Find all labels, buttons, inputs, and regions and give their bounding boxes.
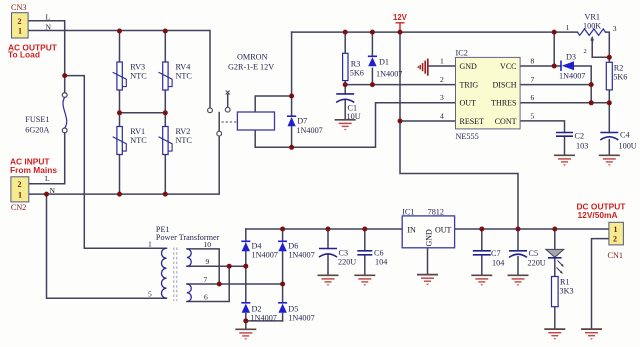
ground below C7	[471, 275, 492, 286]
svg-text:2: 2	[18, 180, 22, 189]
node TRIG R3/C1	[343, 82, 348, 87]
svg-text:R3: R3	[351, 60, 361, 69]
junction DC rail / C6	[362, 227, 367, 232]
wire RV2 stubs	[164, 113, 166, 194]
svg-text:1: 1	[148, 239, 152, 248]
capacitor C2 103	[556, 132, 588, 151]
junction N rail / RV3	[117, 29, 122, 34]
wire TRIG line	[345, 84, 455, 86]
junction D4/D2 midpoint	[243, 264, 248, 269]
thermistor RV1	[113, 127, 148, 155]
ground below R1	[544, 329, 565, 340]
svg-text:1: 1	[440, 56, 444, 65]
wire RV3 bottom to mid rail	[119, 90, 121, 113]
svg-text:104: 104	[492, 259, 504, 268]
wire D2 ground stub	[245, 321, 247, 329]
svg-text:1N4007: 1N4007	[296, 126, 322, 135]
wire relay coil top to D7 top	[255, 96, 291, 112]
wire transformer pin9 to bridge left mid	[187, 265, 246, 267]
svg-text:C2: C2	[575, 132, 585, 141]
svg-text:RESET: RESET	[460, 117, 485, 126]
svg-text:2: 2	[440, 75, 444, 84]
svg-text:3: 3	[613, 24, 617, 33]
svg-text:RV3: RV3	[130, 63, 145, 72]
capacitor C6 104	[357, 249, 387, 267]
svg-text:NE555: NE555	[456, 132, 479, 141]
wire RV1 stubs	[119, 113, 121, 194]
svg-text:CN2: CN2	[11, 203, 26, 212]
thermistor RV4	[159, 62, 193, 90]
svg-text:2: 2	[613, 235, 617, 244]
wire fuse top lead	[64, 76, 66, 93]
svg-text:103: 103	[576, 142, 588, 151]
svg-text:2: 2	[584, 48, 587, 55]
ground below IC1	[417, 275, 438, 286]
svg-text:RV1: RV1	[130, 127, 145, 136]
svg-text:L: L	[46, 12, 51, 21]
svg-text:CN3: CN3	[11, 3, 26, 12]
resistor R2 5K6	[606, 62, 627, 90]
wire CONT pin5 to C2	[520, 121, 564, 133]
junction DC rail / D6	[280, 227, 285, 232]
svg-text:DISCH: DISCH	[492, 80, 516, 89]
svg-text:1N4007: 1N4007	[376, 70, 402, 79]
junction VCC / D3 cathode	[552, 64, 557, 69]
potentiometer VR1 100K	[566, 12, 617, 57]
svg-text:D3: D3	[566, 52, 576, 61]
wire R3 stubs	[344, 32, 346, 85]
svg-text:10: 10	[204, 240, 212, 249]
wire C1 stubs	[344, 85, 346, 120]
diode D7 1N4007	[287, 116, 323, 135]
diode D6 1N4007	[278, 241, 315, 259]
junction N line / RV1	[117, 192, 122, 197]
junction RV3/RV1	[117, 110, 122, 115]
svg-text:OMRON: OMRON	[237, 53, 268, 62]
svg-text:THRES: THRES	[491, 99, 516, 108]
junction DC rail / C7	[479, 227, 484, 232]
wire C4 stubs	[608, 103, 610, 156]
wire D2 stubs	[245, 266, 247, 321]
wire VR1 wiper to R2 top	[592, 39, 609, 63]
capacitor C7 104	[473, 249, 504, 268]
wire RV4 top stub	[164, 31, 166, 62]
svg-text:C5: C5	[529, 249, 539, 258]
svg-text:6: 6	[204, 293, 208, 302]
svg-text:4: 4	[440, 111, 444, 120]
text AC OUTPUT To Load	[8, 43, 58, 60]
wire CN3 pin2 L to fuse top	[28, 21, 65, 76]
transformer secondary winding A	[187, 249, 191, 266]
svg-text:12V/50mA: 12V/50mA	[578, 210, 618, 220]
junction THRES	[589, 100, 594, 105]
analog ground at IC2 pin1	[418, 59, 428, 76]
diode D3 1N4007	[559, 52, 585, 80]
junction N line / RV2	[163, 192, 168, 197]
svg-text:CONT: CONT	[495, 117, 517, 126]
svg-text:9: 9	[206, 257, 210, 266]
svg-text:1N4007: 1N4007	[252, 251, 278, 260]
wire C3 stubs	[327, 229, 329, 275]
wire D3 leads	[554, 66, 591, 85]
svg-text:VR1: VR1	[585, 12, 600, 21]
ground below C5	[508, 275, 529, 286]
wire 12V rail	[292, 31, 578, 33]
svg-text:1: 1	[18, 27, 22, 36]
svg-text:12V: 12V	[393, 13, 408, 22]
connector CN2	[11, 177, 29, 212]
regulator IC1 7812	[402, 207, 454, 247]
svg-text:L: L	[45, 174, 50, 183]
svg-text:D6: D6	[288, 242, 298, 251]
wire D6 stubs	[282, 229, 284, 284]
junction DC rail / LED	[552, 227, 557, 232]
junction 12V rail / VCC drop	[552, 30, 557, 35]
wire RESET pin4	[400, 120, 456, 122]
wire GND pin1	[429, 65, 456, 67]
wire D5 stubs	[282, 284, 284, 321]
wire 12V riser to RESET and down to DC rail	[400, 32, 518, 229]
junction relay coil bottom / D7 / OUT	[289, 145, 294, 150]
ground below C4	[599, 155, 620, 166]
svg-text:C4: C4	[620, 131, 630, 140]
junction sec 10+7 / bridge AC2	[217, 282, 222, 287]
resistor R1 3K3	[552, 277, 574, 307]
transformer primary winding	[162, 248, 167, 298]
svg-text:RV2: RV2	[176, 127, 191, 136]
svg-text:104: 104	[375, 258, 387, 267]
svg-text:1N4007: 1N4007	[251, 314, 277, 323]
wire transformer pin7 to bridge right mid	[187, 283, 283, 285]
power symbol 12V	[393, 13, 408, 32]
svg-text:8: 8	[531, 56, 535, 65]
junction DC rail / C3	[326, 227, 331, 232]
svg-text:C3: C3	[339, 249, 349, 258]
wire VR1 right lead down to R2	[606, 32, 610, 57]
svg-text:1: 1	[566, 23, 570, 32]
relay contact circles	[208, 91, 231, 137]
svg-text:1N4007: 1N4007	[288, 251, 314, 260]
junction fuse/CN3-L/transformer branch	[62, 73, 67, 78]
svg-text:5K6: 5K6	[350, 69, 364, 78]
wire transformer pin10 riser	[187, 249, 219, 284]
svg-text:100K: 100K	[583, 22, 601, 31]
transformer core	[174, 248, 177, 302]
svg-text:1: 1	[614, 225, 618, 234]
svg-text:7: 7	[204, 275, 208, 284]
junction VR1 pin3 / wiper / R2	[607, 55, 612, 60]
wire LED column	[554, 229, 556, 277]
svg-text:3: 3	[440, 93, 444, 102]
svg-text:R1: R1	[560, 278, 570, 287]
svg-text:IC1: IC1	[402, 207, 414, 216]
svg-text:TRIG: TRIG	[460, 80, 479, 89]
resistor R3 5K6	[343, 53, 364, 80]
wire C5 stubs	[517, 229, 519, 275]
svg-text:G2R-1-E 12V: G2R-1-E 12V	[228, 63, 274, 72]
wire C2 ground stub	[564, 136, 566, 155]
ground below C3	[318, 275, 339, 286]
capacitor C5 220U polarized	[509, 249, 546, 268]
wire RV3 top stub	[119, 31, 121, 62]
junction 12V rail / riser	[398, 30, 403, 35]
wire D1 stubs	[371, 32, 373, 85]
capacitor C4 100U polarized	[600, 131, 636, 151]
wire D4 stubs	[245, 229, 247, 266]
svg-text:OUT: OUT	[435, 225, 452, 234]
wire bridge bottom rail	[246, 320, 283, 322]
wire D7 column	[291, 32, 293, 147]
wire C6 stubs	[364, 229, 366, 275]
svg-text:NTC: NTC	[130, 72, 147, 81]
wire VCC pin8 to 12V drop	[520, 32, 554, 66]
svg-text:From Mains: From Mains	[10, 165, 57, 175]
wire relay coil bottom to 555 OUT	[255, 103, 455, 148]
svg-text:1N4007: 1N4007	[288, 314, 314, 323]
junction bridge negative / ground	[243, 318, 248, 323]
svg-text:NTC: NTC	[176, 136, 193, 145]
svg-text:C7: C7	[491, 249, 501, 258]
diode D2 1N4007	[241, 303, 277, 323]
svg-text:7: 7	[531, 75, 535, 84]
svg-text:7812: 7812	[428, 207, 444, 216]
svg-text:220U: 220U	[528, 259, 546, 268]
svg-text:D5: D5	[288, 305, 298, 314]
svg-text:3K3: 3K3	[560, 287, 574, 296]
wire CN3 pin1 N top rail to relay contact	[28, 31, 210, 108]
svg-text:VCC: VCC	[500, 62, 516, 71]
wire DC plus rail right	[455, 228, 609, 230]
svg-text:N: N	[50, 186, 56, 195]
fuse FUSE1	[25, 93, 67, 135]
relay K1 OMRON G2R-1-E 12V label	[228, 53, 274, 72]
ground below C1	[335, 120, 356, 131]
wire C7 stubs	[481, 229, 483, 275]
svg-text:5: 5	[531, 111, 535, 120]
junction 12V rail / R3	[343, 30, 348, 35]
junction relay coil top / D7 / 12V	[289, 94, 294, 99]
text DC OUTPUT 12V/50mA	[577, 202, 627, 221]
wire RV mid rail	[120, 112, 166, 114]
svg-text:220U: 220U	[338, 258, 356, 267]
svg-text:5: 5	[148, 290, 152, 299]
svg-text:FUSE1: FUSE1	[25, 115, 49, 124]
svg-text:IC2: IC2	[456, 48, 468, 57]
ground below C2	[554, 155, 575, 166]
relay coil	[237, 112, 274, 130]
svg-text:6: 6	[531, 93, 535, 102]
svg-text:GND: GND	[460, 62, 478, 71]
junction RESET / 12V riser	[398, 119, 403, 124]
junction THRES / R2 / C4	[607, 100, 612, 105]
wire R2 bottom stub	[608, 90, 610, 103]
wire fuse junction branch to transformer primary pin1	[65, 76, 167, 249]
svg-text:NTC: NTC	[176, 72, 193, 81]
junction DISCH / D3 anode	[589, 82, 594, 87]
svg-text:C6: C6	[374, 249, 384, 258]
svg-text:D1: D1	[379, 58, 389, 67]
ground below C6	[354, 275, 375, 286]
svg-text:D7: D7	[297, 117, 307, 126]
wire relay NC contact stub	[227, 95, 229, 108]
wire fuse bottom to CN2 L	[29, 133, 65, 184]
transformer PE1 labels	[156, 225, 220, 242]
thermistor RV2	[159, 127, 193, 155]
wire DISCH pin7	[520, 85, 591, 103]
junction DC rail / C5 / 12V riser	[516, 227, 521, 232]
LED indicator	[546, 249, 564, 273]
ground below D2	[235, 329, 256, 340]
wire relay armature	[218, 113, 220, 132]
wire CN2 N branch down to transformer primary pin5	[47, 194, 167, 298]
node TRIG D1	[370, 82, 375, 87]
wire RV4 bottom to mid rail	[164, 90, 166, 113]
svg-text:To Load: To Load	[8, 50, 40, 60]
junction D6/D5 midpoint	[280, 282, 285, 287]
wire transformer pin6 riser	[187, 266, 229, 301]
svg-text:1N4007: 1N4007	[559, 72, 585, 81]
wire CN2 N line to relay common	[29, 136, 219, 194]
connector CN1	[608, 222, 624, 260]
transformer secondary winding B	[187, 284, 191, 302]
svg-text:OUT: OUT	[460, 99, 477, 108]
svg-text:5K6: 5K6	[613, 73, 627, 82]
svg-text:100U: 100U	[619, 142, 637, 151]
svg-text:6G20A: 6G20A	[25, 126, 49, 135]
junction N rail / RV4	[163, 29, 168, 34]
ground below CN1 pin2	[581, 329, 602, 340]
svg-text:R2: R2	[614, 64, 624, 73]
svg-text:N: N	[46, 22, 52, 31]
wire CN1 pin2 to ground	[592, 239, 609, 330]
junction RV4/RV2	[163, 110, 168, 115]
junction dots net connections	[44, 29, 612, 324]
svg-text:D2: D2	[252, 305, 262, 314]
svg-text:1: 1	[18, 190, 22, 199]
svg-text:IN: IN	[407, 225, 416, 234]
svg-text:GND: GND	[425, 229, 434, 247]
wire R1 ground stub	[554, 307, 556, 329]
svg-text:RV4: RV4	[176, 63, 191, 72]
relay actuator dashed link	[222, 121, 238, 123]
capacitor C3 220U polarized	[319, 249, 356, 267]
wire THRES pin6	[520, 102, 609, 104]
svg-text:2: 2	[18, 17, 22, 26]
junction sec 9+6 / bridge AC1	[227, 264, 232, 269]
svg-text:D4: D4	[252, 242, 262, 251]
junction N to transformer pin5	[44, 192, 49, 197]
svg-text:CN1: CN1	[608, 251, 623, 260]
wire IC1 GND stub	[427, 248, 429, 275]
diode D5 1N4007	[278, 303, 315, 323]
junction 12V rail / D1	[370, 30, 375, 35]
diode D4 1N4007	[241, 241, 278, 259]
connector CN3	[11, 3, 28, 38]
diode D1 1N4007	[368, 56, 402, 78]
op-amp/timer IC2 NE555 body	[456, 48, 521, 141]
svg-text:NTC: NTC	[130, 136, 147, 145]
text AC INPUT From Mains	[10, 156, 57, 175]
wire DC plus rail left	[246, 228, 402, 230]
thermistor RV3	[113, 62, 148, 90]
capacitor C1 10U polarized	[336, 94, 360, 121]
